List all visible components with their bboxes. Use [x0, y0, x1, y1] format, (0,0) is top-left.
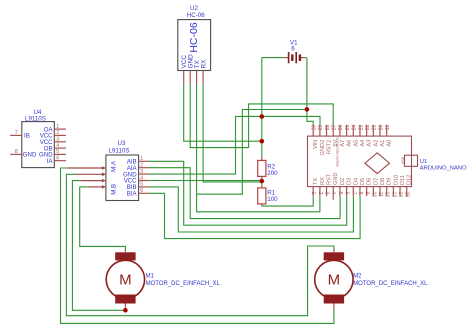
svg-text:U3: U3 — [118, 140, 126, 147]
svg-text:A2: A2 — [373, 140, 379, 147]
svg-text:A4: A4 — [360, 140, 366, 147]
svg-text:200: 200 — [267, 170, 278, 177]
svg-text:M: M — [328, 272, 341, 289]
svg-text:M: M — [119, 272, 132, 289]
svg-text:9: 9 — [364, 192, 370, 195]
svg-text:Arduino Nano(Rev3): Arduino Nano(Rev3) — [335, 137, 339, 166]
svg-text:3: 3 — [140, 169, 143, 175]
svg-text:2: 2 — [317, 192, 323, 195]
svg-text:USB: USB — [401, 156, 405, 164]
svg-text:4: 4 — [330, 192, 336, 195]
svg-text:14: 14 — [397, 192, 403, 198]
svg-text:D11: D11 — [400, 175, 406, 185]
svg-text:29: 29 — [318, 125, 324, 131]
svg-text:1: 1 — [56, 124, 59, 130]
svg-text:D4: D4 — [353, 178, 359, 185]
svg-text:D8: D8 — [380, 178, 386, 185]
svg-text:D3: D3 — [347, 178, 353, 185]
svg-text:5: 5 — [140, 182, 143, 188]
svg-text:11: 11 — [377, 192, 383, 197]
svg-text:MOTOR_DC_EINFACH_XL: MOTOR_DC_EINFACH_XL — [146, 281, 221, 287]
svg-text:GND: GND — [333, 173, 339, 185]
svg-text:1: 1 — [310, 192, 316, 195]
svg-text:5: 5 — [56, 149, 59, 155]
svg-text:IB: IB — [24, 133, 30, 140]
svg-text:M.A: M.A — [111, 160, 118, 172]
svg-text:28: 28 — [325, 125, 331, 131]
svg-text:27: 27 — [332, 125, 338, 131]
svg-text:A5: A5 — [353, 140, 359, 147]
svg-text:L9110S: L9110S — [109, 148, 130, 155]
svg-text:RX: RX — [201, 59, 208, 69]
svg-text:10: 10 — [370, 192, 376, 198]
svg-text:M2: M2 — [353, 274, 362, 280]
svg-text:D5: D5 — [360, 178, 366, 185]
svg-text:4: 4 — [56, 143, 59, 149]
svg-text:7: 7 — [15, 130, 18, 136]
svg-text:22: 22 — [365, 125, 371, 131]
svg-text:2: 2 — [140, 163, 143, 169]
svg-text:20: 20 — [378, 125, 384, 131]
svg-text:6: 6 — [344, 192, 350, 195]
svg-text:8: 8 — [15, 149, 18, 155]
svg-text:100: 100 — [267, 196, 278, 203]
svg-text:GND2: GND2 — [320, 140, 326, 156]
svg-text:A6: A6 — [347, 140, 353, 147]
svg-text:7: 7 — [350, 192, 356, 195]
svg-text:8: 8 — [357, 192, 363, 195]
svg-text:IA: IA — [47, 158, 54, 165]
svg-text:M1: M1 — [146, 274, 155, 280]
svg-text:GND: GND — [23, 152, 37, 159]
svg-text:5: 5 — [337, 192, 343, 195]
svg-text:15: 15 — [404, 192, 410, 198]
svg-text:D7: D7 — [373, 178, 379, 185]
svg-text:21: 21 — [372, 125, 378, 131]
svg-text:1: 1 — [140, 156, 143, 162]
svg-text:RX: RX — [320, 177, 326, 185]
svg-text:MOTOR_DC_EINFACH_XL: MOTOR_DC_EINFACH_XL — [353, 281, 428, 287]
svg-text:U2: U2 — [190, 5, 198, 12]
svg-text:L9110S: L9110S — [25, 116, 46, 123]
svg-text:ARDUINO_NANO: ARDUINO_NANO — [420, 166, 467, 172]
svg-text:HC-06: HC-06 — [187, 12, 205, 19]
svg-text:6: 6 — [56, 156, 59, 162]
svg-text:13: 13 — [390, 192, 396, 198]
svg-text:D10: D10 — [393, 175, 399, 185]
svg-text:6: 6 — [140, 188, 143, 194]
svg-text:3: 3 — [56, 137, 59, 143]
svg-text:VIN: VIN — [313, 140, 319, 149]
svg-text:A3: A3 — [367, 140, 373, 147]
svg-text:D6: D6 — [367, 178, 373, 185]
svg-text:30: 30 — [312, 125, 318, 131]
svg-text:2: 2 — [56, 130, 59, 136]
svg-text:TX: TX — [313, 178, 319, 185]
svg-text:A7: A7 — [340, 140, 346, 147]
svg-text:23: 23 — [358, 125, 364, 131]
svg-text:26: 26 — [338, 125, 344, 131]
svg-text:25: 25 — [345, 125, 351, 131]
svg-text:3: 3 — [324, 192, 330, 195]
svg-text:D9: D9 — [387, 178, 393, 185]
svg-text:D2: D2 — [340, 178, 346, 185]
svg-text:6: 6 — [291, 46, 295, 53]
svg-text:BIA: BIA — [127, 191, 138, 198]
svg-text:U1: U1 — [420, 159, 427, 165]
svg-text:D12: D12 — [407, 175, 413, 185]
svg-text:HC-06: HC-06 — [188, 22, 200, 53]
svg-text:12: 12 — [384, 192, 390, 198]
svg-text:4: 4 — [140, 175, 143, 181]
svg-text:M.B: M.B — [111, 184, 118, 195]
svg-text:RST: RST — [327, 173, 333, 185]
svg-text:24: 24 — [352, 125, 358, 131]
svg-text:A0: A0 — [387, 140, 393, 147]
svg-text:A1: A1 — [380, 140, 386, 147]
svg-text:19: 19 — [385, 125, 391, 131]
svg-text:RST2: RST2 — [327, 140, 333, 154]
